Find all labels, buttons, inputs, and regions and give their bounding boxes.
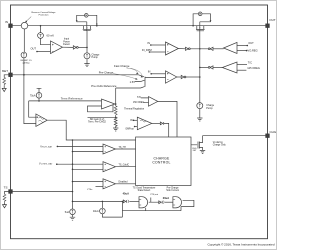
wire VRCH label line [57, 145, 103, 147]
ground arrow below R_ISET [2, 88, 6, 91]
wire IN input to amp1 [151, 44, 166, 46]
ground below Q3 [200, 150, 205, 153]
current source 40uA [101, 201, 103, 208]
charge pump right [197, 103, 203, 109]
ground below divider [113, 128, 118, 131]
svg-text:IN: IN [5, 20, 8, 24]
comparator 2 [103, 162, 116, 172]
wire ISET line [12, 74, 138, 76]
wire mux1 out [149, 198, 159, 203]
svg-text:uA Max: uA Max [22, 62, 30, 65]
svg-text:TS_HT: TS_HT [119, 147, 127, 149]
svg-text:125 OREG: 125 OREG [247, 66, 260, 70]
wire bottom rail [122, 201, 181, 217]
svg-text:T/C: T/C [248, 60, 252, 64]
svg-text:Power: Power [63, 40, 70, 43]
wire IN input gm amp [134, 119, 138, 121]
svg-text:ISET: ISET [2, 69, 9, 73]
wire main rail IN to OUT [12, 25, 265, 27]
wire switch contacts [116, 75, 166, 88]
wire body diode loop left [77, 15, 97, 30]
comparator OUT vs VOREG [224, 42, 238, 53]
wire CHG pin line [203, 135, 266, 137]
ground below charge pump right [197, 118, 202, 121]
svg-text:40uA: 40uA [93, 210, 99, 213]
svg-text:Pre-CHG Reference: Pre-CHG Reference [91, 84, 117, 88]
svg-text:20uA: 20uA [163, 196, 169, 200]
wire OUT node to comparator [37, 51, 51, 53]
wire IN input to amp2 [151, 73, 165, 75]
svg-text:VTS,out: VTS,out [150, 193, 158, 196]
wire sleep source to ISET line and down to error amp [24, 58, 36, 124]
svg-text:CHG: CHG [270, 130, 277, 134]
resistor divider lower R3 [114, 117, 117, 128]
op-amp input power detect [51, 41, 63, 54]
svg-text:Pump: Pump [206, 107, 213, 110]
mosfet Q2 pass fet right [196, 26, 205, 49]
junction 60mV [40, 25, 42, 27]
wire body diode loop right [193, 14, 210, 31]
wire VLOWV label line [57, 163, 103, 165]
summing amp thermal [149, 97, 158, 107]
svg-text:IN: IN [148, 70, 151, 74]
svg-text:150 OREG: 150 OREG [133, 102, 144, 104]
svg-text:OUT: OUT [31, 46, 37, 50]
svg-text:Sink Current: Sink Current [166, 189, 179, 192]
svg-text:Vo during: Vo during [213, 141, 223, 144]
ground arrow below R_TS [3, 205, 7, 208]
comparator TC 125ohm [222, 62, 237, 73]
mosfet Q1 pass fet left [83, 26, 92, 48]
wire TS bus to 45uA switch [73, 200, 124, 202]
svg-text:TS: TS [4, 186, 8, 190]
resistor R_TS external [5, 192, 9, 205]
svg-text:TS_ColdC: TS_ColdC [119, 165, 130, 167]
svg-text:Detect: Detect [63, 43, 70, 46]
wire IN_DPM input to amp1 [150, 51, 166, 53]
svg-text:Copyright © 2016, Texas Instru: Copyright © 2016, Texas Instruments Inco… [207, 243, 274, 247]
wire TC comparator line [200, 66, 208, 68]
wire comp3 output [116, 183, 136, 185]
svg-text:State Detect: State Detect [138, 189, 151, 192]
wire comparator bus [72, 140, 74, 201]
svg-text:OUT: OUT [269, 18, 276, 22]
wire gate node to charge pump [86, 47, 88, 52]
op-amp amp2 [166, 71, 177, 83]
svg-text:CONTROL: CONTROL [152, 161, 170, 165]
svg-text:VLOWV_BAT: VLOWV_BAT [39, 163, 53, 166]
charge pump left [84, 53, 90, 59]
pin ISET [9, 73, 13, 77]
wire TS pin line [12, 191, 72, 193]
svg-text:5uA: 5uA [65, 211, 70, 214]
wire comp3 upper input [73, 181, 104, 183]
pin OUT [266, 24, 270, 28]
inverter bubble comp1 out [208, 48, 210, 50]
mux block 1 [139, 197, 148, 208]
op-amp gm amp B [137, 117, 152, 130]
wire comp2 lower input [73, 168, 104, 170]
wire VTS label input [96, 186, 104, 188]
svg-text:1.5V: 1.5V [130, 80, 136, 84]
svg-text:75uA: 75uA [30, 94, 36, 97]
ground below 5uA [70, 217, 75, 220]
svg-text:45uA: 45uA [123, 192, 129, 196]
op-amp current reg amp1 [166, 42, 179, 55]
resistor R_ISET external [4, 75, 9, 89]
wire comp1 lower input [73, 151, 104, 153]
diode D1 in circle [85, 14, 89, 18]
wire 125ohm label input [237, 69, 246, 71]
charge control block [136, 137, 191, 186]
svg-text:Term. Pre-CHG2: Term. Pre-CHG2 [88, 121, 106, 124]
comparator VRCH 1 [103, 144, 116, 154]
svg-text:Fast Charge: Fast Charge [114, 64, 130, 68]
reverse protection circle [21, 22, 28, 29]
svg-text:Pre-Charge: Pre-Charge [99, 71, 114, 75]
wire OUT label input [237, 45, 247, 47]
wire VOREG label input [237, 50, 247, 52]
buffer with bubble amp2 out [177, 76, 181, 78]
wire gate bus down [199, 49, 201, 103]
current source 75uA [37, 88, 42, 92]
wire comp2 output [116, 166, 136, 168]
wire IN down branch [23, 29, 25, 52]
current source 5uA [72, 201, 74, 209]
pin IN [9, 24, 13, 28]
comparator 3 TS [103, 179, 116, 189]
svg-text:Thermal Regulation: Thermal Regulation [124, 107, 145, 110]
resistor divider upper R2 [115, 88, 117, 106]
wire gm amp to charge control [164, 123, 169, 137]
svg-text:T/C: T/C [137, 95, 141, 99]
diode D2 in circle [198, 12, 202, 16]
arrow label to circle [26, 17, 31, 22]
svg-text:Input: Input [64, 38, 69, 41]
device boundary box [11, 5, 268, 239]
op-amp error amp left [36, 114, 47, 126]
svg-text:VTSx: VTSx [87, 189, 93, 191]
svg-text:60 mV: 60 mV [47, 34, 55, 38]
svg-text:TS Good Temperature: TS Good Temperature [133, 186, 156, 189]
svg-text:IN: IN [130, 118, 133, 122]
ground below charge pump left [84, 64, 89, 67]
wire mux2 out loop [181, 200, 194, 206]
switch symbol 45uA [123, 200, 125, 203]
60mV source V1 [38, 33, 44, 39]
switch symbol gm amp out [152, 122, 161, 124]
svg-text:Pump: Pump [92, 56, 99, 59]
svg-text:OUT: OUT [248, 41, 254, 45]
wire term amp output to divider [114, 103, 117, 105]
buffer with bubble amp1 out [178, 48, 185, 50]
mosfet Q3 CHG status [191, 136, 203, 151]
svg-text:IN_DPM: IN_DPM [142, 48, 152, 52]
arrow fast charge to switch [127, 68, 139, 73]
arrow pre-charge to switch [113, 74, 137, 80]
pin TS [9, 190, 13, 194]
wire summing amp to charge control [158, 101, 177, 137]
switch symbol 20uA [159, 201, 161, 204]
svg-text:Disabled: Disabled [119, 182, 129, 184]
wire term reference node [29, 101, 102, 117]
svg-text:GMPout: GMPout [125, 127, 134, 130]
wire TC label input [237, 64, 247, 66]
svg-text:Charge Only: Charge Only [213, 144, 227, 147]
svg-text:IN: IN [147, 41, 150, 45]
svg-text:VO,REG: VO,REG [248, 49, 258, 53]
buffer with bubble U2 [63, 46, 74, 48]
wire term amp feedback loop [88, 105, 114, 112]
wire error amp output to charge control [47, 120, 135, 140]
wire buffer to gate node [78, 46, 87, 48]
pin CHG [266, 134, 270, 138]
svg-text:Protection: Protection [39, 14, 50, 17]
wire GMP input gm amp [135, 126, 138, 128]
wire 60mV branch [41, 26, 51, 45]
svg-text:VRCH_BAT: VRCH_BAT [40, 145, 53, 148]
wire comp1 output [116, 148, 136, 150]
svg-text:Term Reference: Term Reference [61, 96, 83, 100]
op-amp term reference buffer [102, 99, 115, 109]
svg-text:Pre-Charge: Pre-Charge [167, 186, 180, 189]
mux block 2 [173, 197, 182, 208]
sleep current source I1 [21, 52, 27, 58]
inverter bubble comp2 out [208, 67, 210, 69]
wire divider tap feedback [88, 116, 116, 118]
